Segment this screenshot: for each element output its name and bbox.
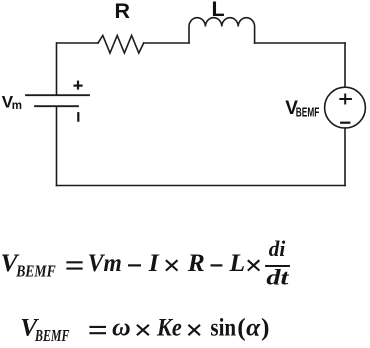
svg-text:m: m — [12, 100, 22, 112]
resistor R — [98, 36, 144, 54]
svg-text:ω: ω — [112, 313, 131, 342]
wire inductor to top-right corner — [255, 42, 345, 44]
svg-text:dt: dt — [266, 265, 289, 290]
svg-text:α: α — [246, 313, 261, 342]
battery minus mark — [77, 112, 79, 122]
wire below source — [344, 128, 346, 186]
battery bottom plate — [35, 105, 78, 107]
svg-text:BEMF: BEMF — [34, 326, 69, 345]
source plus sign — [339, 94, 352, 105]
svg-text:sin: sin — [210, 313, 236, 342]
svg-text:R: R — [187, 248, 205, 277]
svg-text:di: di — [269, 236, 286, 261]
wire left side up to battery — [56, 106, 58, 185]
source minus sign — [340, 122, 350, 124]
equation 2: V_BEMF = w x Ke x sin(a) — [20, 313, 269, 346]
svg-text:R: R — [115, 0, 131, 23]
wire battery to top-left corner — [56, 43, 58, 95]
equation 1: V_BEMF = Vm - I x R - L x di/dt — [1, 236, 290, 290]
svg-text:L: L — [229, 248, 246, 277]
svg-text:L: L — [212, 0, 225, 21]
svg-text:): ) — [261, 313, 270, 342]
bottom wire — [57, 185, 346, 187]
svg-text:I: I — [148, 248, 160, 277]
source V_BEMF circle U1 — [325, 87, 366, 128]
inductor L — [189, 18, 255, 43]
svg-text:BEMF: BEMF — [296, 105, 320, 120]
svg-text:BEMF: BEMF — [15, 262, 55, 281]
battery top plate — [26, 94, 89, 96]
svg-text:(: ( — [237, 313, 246, 342]
svg-text:Ke: Ke — [156, 313, 182, 342]
wire top-left horizontal — [57, 42, 98, 44]
svg-text:Vm: Vm — [88, 248, 122, 277]
wire right side down to source — [344, 43, 346, 87]
battery plus sign — [74, 81, 83, 90]
wire resistor to inductor — [144, 42, 189, 44]
